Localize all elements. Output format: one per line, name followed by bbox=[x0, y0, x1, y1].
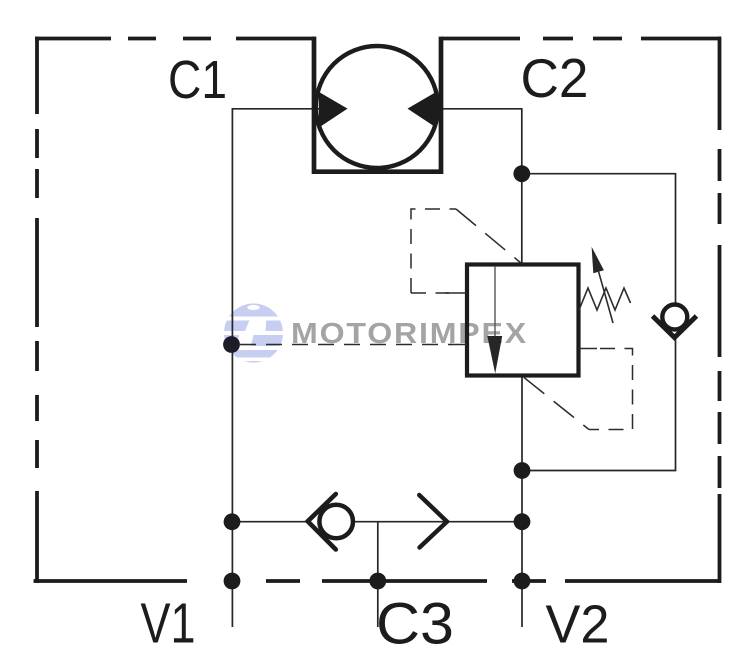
svg-text:C3: C3 bbox=[376, 592, 454, 657]
check valve CV1 (bottom) ball circle bbox=[319, 505, 353, 539]
motor M1 left triangle bbox=[319, 92, 348, 128]
junction dot: node A top right bbox=[513, 165, 530, 182]
pilot dashed box upper-left bbox=[411, 209, 456, 293]
wire: C3 port stub bbox=[377, 522, 379, 627]
pilot box solid stub at valve left bbox=[445, 292, 467, 294]
svg-text:V1: V1 bbox=[141, 592, 196, 656]
wire: node A to right check valve branch bbox=[522, 174, 676, 304]
junction dot: bottom line right bbox=[514, 513, 531, 530]
enclosure border bottom (dashed) bbox=[34, 579, 722, 583]
motor M1 enclosure notch (thick U) bbox=[314, 37, 441, 172]
svg-text:C1: C1 bbox=[168, 50, 227, 110]
motor M1 right triangle bbox=[408, 92, 437, 128]
wire: motor right to C2 node and down to relief valve bbox=[436, 109, 522, 264]
enclosure border left (dashed) bbox=[35, 37, 39, 583]
pilot diagonal lower bbox=[524, 378, 589, 430]
watermark globe logo bbox=[223, 295, 285, 367]
wire: relief valve bottom to V2 port bbox=[521, 376, 523, 628]
pilot diagonal upper bbox=[456, 209, 522, 264]
pilot line from left branch (dashed horizontal) bbox=[240, 344, 452, 346]
check valve CV2 (right) ball circle bbox=[662, 305, 687, 330]
junction dot: bottom line left bbox=[224, 513, 241, 530]
relief valve internal arrow bbox=[487, 336, 502, 374]
relief valve internal line bbox=[494, 266, 496, 337]
junction dot: right branch rejoin bbox=[514, 462, 531, 479]
junction dot: V1 border bbox=[224, 573, 241, 590]
pilot line solid stub at valve bbox=[450, 344, 467, 346]
pilot dashed box lower-right bbox=[589, 349, 633, 430]
adjustment arrow head bbox=[592, 247, 604, 274]
relief valve body (square) bbox=[467, 265, 579, 376]
check valve CV2 (right) seat V bbox=[653, 316, 697, 338]
relief valve spring bbox=[579, 288, 631, 310]
junction dot: C3 border bbox=[369, 573, 386, 590]
pilot dashed box lower-right stub bbox=[579, 348, 598, 350]
check valve CV1 (bottom) chevron seat bbox=[308, 494, 336, 550]
junction dot: V2 border bbox=[514, 573, 531, 590]
wire: right check valve down and back to V2 line bbox=[522, 336, 676, 471]
enclosure border right (dashed) bbox=[718, 37, 722, 583]
junction dot: pilot tap left bbox=[223, 336, 240, 353]
svg-text:V2: V2 bbox=[546, 595, 610, 655]
flow direction arrow (bottom) bbox=[419, 495, 447, 548]
svg-text:C2: C2 bbox=[521, 47, 589, 109]
enclosure border top (dashed) bbox=[35, 37, 721, 41]
adjustment arrow shaft bbox=[599, 272, 613, 323]
wire: bottom shuttle line V1 to V2 bbox=[232, 521, 522, 523]
motor M1 circle bbox=[316, 46, 438, 168]
wire: C1 port line (vertical x=232 with top horizontal to motor) bbox=[232, 109, 319, 627]
check valve CV1 seat interior mask bbox=[309, 515, 324, 528]
